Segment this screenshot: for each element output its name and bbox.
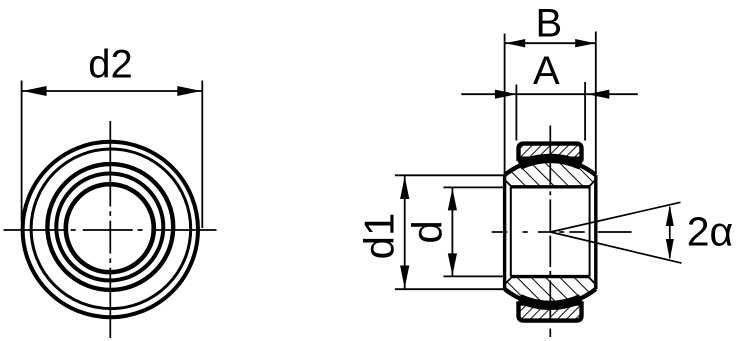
svg-text:B: B	[535, 1, 562, 45]
tilt angle arrow line	[669, 207, 671, 258]
tilt angle lower line	[550, 232, 681, 263]
d1 extension line top	[395, 174, 504, 176]
sliding layer bottom (black lens)	[520, 299, 582, 306]
bore edge right	[589, 187, 591, 277]
sliding layer top (black lens)	[520, 158, 582, 165]
d2 dimension line	[22, 90, 203, 92]
B extension line left	[504, 34, 506, 175]
svg-text:d: d	[404, 220, 451, 243]
outer ring face edge circle	[31, 149, 191, 309]
A arrow right	[587, 90, 609, 99]
outer ring bottom section	[519, 304, 582, 321]
d1 dimension line	[404, 175, 406, 289]
sphere outline circle	[47, 164, 173, 290]
A extension line left	[515, 85, 517, 141]
B arrow right	[575, 39, 595, 47]
outer ring top section	[519, 144, 582, 159]
horizontal centerline left view	[4, 229, 217, 231]
vertical centerline left view	[109, 121, 111, 338]
chamfer bottom-left	[505, 278, 511, 284]
d1 arrow bottom	[400, 266, 409, 289]
A extension line right	[584, 82, 586, 141]
d2 extension line right	[201, 81, 203, 229]
svg-text:A: A	[533, 49, 560, 93]
A dimension leader line	[461, 93, 638, 95]
sphere bottom arc	[505, 289, 596, 305]
sphere top arc	[505, 159, 596, 175]
d arrow top	[448, 188, 457, 210]
tilt angle arrow up	[666, 205, 674, 226]
vertical centerline section	[549, 126, 551, 338]
tilt angle arrow down	[666, 239, 674, 260]
bore circle	[66, 184, 154, 272]
inner ring right face	[594, 175, 597, 289]
horizontal centerline section	[492, 231, 632, 233]
A arrow left	[495, 90, 517, 99]
bore edge left	[510, 187, 512, 277]
inner ring chamfer circle	[56, 174, 163, 281]
chamfer bottom-right	[589, 278, 595, 284]
B extension line right	[595, 32, 597, 175]
d1 extension line bottom	[395, 288, 504, 290]
d1 arrow top	[400, 176, 409, 199]
inner ring bottom hatched section	[505, 277, 596, 305]
B arrow left	[505, 39, 525, 47]
svg-text:2α: 2α	[687, 209, 734, 255]
inner ring top hatched section	[505, 159, 596, 187]
B dimension line	[505, 42, 596, 44]
d2 arrow left	[23, 86, 47, 96]
inner ring left face	[503, 175, 506, 289]
bore bottom line	[511, 275, 590, 278]
tilt angle upper line	[550, 202, 680, 232]
d extension line top	[443, 186, 505, 188]
d2 extension line left	[21, 81, 23, 223]
svg-text:d1: d1	[356, 213, 403, 260]
svg-text:d2: d2	[88, 43, 133, 87]
d2 arrow right	[177, 86, 201, 96]
d extension line bottom	[443, 275, 505, 277]
d dimension line	[451, 187, 453, 276]
outer ring outside circle	[23, 142, 198, 317]
d arrow bottom	[448, 253, 457, 275]
chamfer top-left	[505, 180, 511, 186]
bore top line	[511, 185, 590, 188]
chamfer top-right	[589, 180, 595, 186]
